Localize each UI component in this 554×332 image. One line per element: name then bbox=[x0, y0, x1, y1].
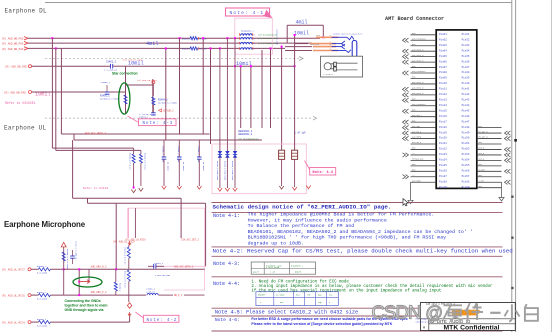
svg-text:C3404_2 C-X5R: C3404_2 C-X5R bbox=[162, 146, 165, 163]
left stub row 14 net AUD_MICBIAS1 bbox=[411, 105, 437, 107]
resistor R3410_2 vertical bbox=[128, 245, 130, 247]
junction NB_DL/v294 bbox=[294, 65, 296, 67]
svg-text:AUD_RG_A: AUD_RG_A bbox=[412, 130, 422, 133]
vertical wire v1 bbox=[51, 38, 53, 148]
left stub row 26 net GND bbox=[411, 170, 437, 172]
vertical wire x89 bbox=[88, 269, 90, 281]
svg-text:Pin10: Pin10 bbox=[439, 81, 447, 85]
svg-text:BEADA502_2: BEADA502_2 bbox=[241, 29, 254, 32]
capacitor C3402_2 bbox=[110, 64, 112, 69]
wire L-route 2 bbox=[56, 149, 141, 151]
svg-text:J3_VUB_2: J3_VUB_2 bbox=[163, 110, 175, 113]
svg-text:Connecting the GNDs: Connecting the GNDs bbox=[65, 299, 101, 303]
svg-text:1_DET: 1_DET bbox=[479, 179, 486, 182]
svg-text:AUD_GND_N_2: AUD_GND_N_2 bbox=[91, 266, 107, 269]
svg-text:Pin39: Pin39 bbox=[462, 76, 470, 80]
svg-text:NC-0402: NC-0402 bbox=[182, 162, 185, 171]
vertical wire x203 bbox=[202, 38, 204, 134]
wire mic row2 bbox=[50, 294, 146, 296]
ground symbol left of connector bbox=[410, 182, 412, 200]
svg-text:Pin45: Pin45 bbox=[462, 108, 470, 112]
wire DL row1 bbox=[28, 37, 190, 39]
svg-text:Pin07: Pin07 bbox=[439, 65, 447, 69]
notes separator top bbox=[407, 202, 503, 204]
svg-text:L-BB-1M: L-BB-1M bbox=[146, 290, 155, 293]
svg-text:The higher impedance @100Mhz B: The higher impedance @100Mhz Bead is bet… bbox=[248, 212, 435, 218]
note box Note 4-2 callout bbox=[135, 312, 143, 318]
wire mic row 3 left bbox=[31, 321, 38, 323]
svg-text:GND/5: GND/5 bbox=[295, 270, 302, 273]
svg-text:Pin42: Pin42 bbox=[462, 92, 470, 96]
bead B3401 in ESD box bbox=[279, 150, 285, 159]
svg-text:R3403_2 R-0-NC: R3403_2 R-0-NC bbox=[144, 153, 147, 171]
svg-text:Pin13: Pin13 bbox=[439, 98, 447, 102]
wire mic rail upper bbox=[73, 197, 182, 199]
svg-text:Pin17: Pin17 bbox=[439, 119, 447, 123]
svg-text:Refer to U3104: Refer to U3104 bbox=[83, 186, 108, 190]
svg-text:Note 4-6:: Note 4-6: bbox=[215, 317, 240, 323]
right stub net AUD_A bbox=[477, 159, 502, 161]
svg-text:R-0-1005: R-0-1005 bbox=[37, 272, 48, 275]
svg-text:Pin40: Pin40 bbox=[462, 81, 470, 85]
svg-text:Pin41: Pin41 bbox=[462, 87, 470, 91]
right stub net ACCDET bbox=[477, 170, 502, 172]
svg-text:Note: 4-3: Note: 4-3 bbox=[143, 122, 174, 126]
red arrow inside ellipse bbox=[79, 280, 91, 284]
svg-text:BLM18BD102SN1 ' ' for high: BLM18BD102SN1 ' ' for high THD performan… bbox=[248, 235, 447, 241]
capacitor C3405_2 column bbox=[178, 140, 180, 157]
star cross link bbox=[126, 84, 153, 86]
svg-text:4mil: 4mil bbox=[146, 41, 158, 47]
left stub row 11 net AUD_HSMc_R bbox=[411, 88, 437, 90]
svg-text:CSDN: CSDN bbox=[372, 301, 421, 322]
svg-text:2. Analog input impedance is: 2. Analog input impedance is as below, p… bbox=[251, 284, 493, 289]
svg-text:However, it may influence the: However, it may influence the audio perf… bbox=[248, 217, 387, 223]
wire NB_DL row bbox=[32, 65, 111, 67]
right stub net 1_DET bbox=[477, 181, 502, 183]
svg-text:Pin21: Pin21 bbox=[439, 141, 447, 145]
svg-text:(R) AUD_NB_PAD: (R) AUD_NB_PAD bbox=[2, 37, 24, 41]
watermark char yi (one) bbox=[490, 312, 500, 314]
vertical wire x165 bbox=[165, 48, 167, 140]
svg-text:Note: 4-1: Note: 4-1 bbox=[230, 10, 265, 16]
resistor R3406_2 bbox=[38, 268, 50, 271]
wire to jack row4 bbox=[285, 50, 312, 52]
junction jack top bbox=[322, 36, 324, 38]
svg-text:HIFANA_AUD: HIFANA_AUD bbox=[412, 158, 424, 161]
green ellipse gnd highlight bbox=[73, 277, 102, 287]
title block internal line 1 bbox=[421, 318, 516, 320]
left stub row 28 net AUD_RGB1 bbox=[411, 181, 437, 183]
svg-text:AUD_GND_P_2: AUD_GND_P_2 bbox=[91, 291, 107, 294]
wire mic row1 bbox=[50, 268, 204, 270]
svg-text:Pin37: Pin37 bbox=[462, 65, 470, 69]
right stub net GND bbox=[477, 165, 502, 167]
right stub net FM_ANT_B bbox=[477, 138, 502, 140]
wire to jack row2 bbox=[295, 43, 308, 45]
title block orange highlight bbox=[452, 310, 482, 316]
svg-text:Note: 4-6: Note: 4-6 bbox=[313, 171, 334, 175]
left stub row 1 net GND bbox=[411, 34, 437, 36]
right stub net GND bbox=[477, 176, 502, 178]
resistor R3411_2 vertical bbox=[127, 270, 130, 281]
note box Note 4-6 callout bbox=[305, 161, 310, 170]
svg-text:C-ACT-AF-YBB: C-ACT-AF-YBB bbox=[155, 274, 171, 277]
wire UL drop left bbox=[73, 134, 75, 140]
svg-text:Earphone UL: Earphone UL bbox=[4, 125, 47, 132]
svg-text:AUD_HSMC_R: AUD_HSMC_R bbox=[412, 59, 424, 62]
note box Note 4-3 callout bbox=[128, 116, 139, 122]
right stub net AUD_B bbox=[477, 154, 502, 156]
svg-text:Earphone Microphone: Earphone Microphone bbox=[4, 220, 86, 229]
svg-text:---: --- bbox=[412, 152, 415, 155]
left stub row 4 net AUD_HSMC_R bbox=[411, 50, 437, 52]
wire mic rail lower bbox=[88, 202, 206, 204]
svg-text:GND through signle via: GND through signle via bbox=[65, 308, 104, 312]
svg-text:R3411_2 R-0-NC: R3411_2 R-0-NC bbox=[124, 271, 127, 289]
left stub row 3 net GND bbox=[411, 45, 437, 47]
junction x270 bbox=[270, 47, 272, 49]
jack mechanical drawing box bbox=[321, 56, 363, 77]
svg-text:AUD_A: AUD_A bbox=[479, 158, 486, 161]
svg-text:2: 2 bbox=[254, 35, 255, 37]
svg-text:AUD_B: AUD_B bbox=[479, 147, 486, 150]
svg-text:NC/0402/-Y/1005: NC/0402/-Y/1005 bbox=[100, 98, 119, 101]
vertical wire x228 bbox=[226, 37, 228, 39]
svg-text:C719_4 C-X5R-NC: C719_4 C-X5R-NC bbox=[75, 241, 78, 260]
resistor R3401_1 bbox=[124, 95, 127, 104]
svg-text:Pin16: Pin16 bbox=[439, 114, 447, 118]
watermark char jian (piece) bbox=[465, 303, 483, 320]
svg-text:Pin43: Pin43 bbox=[462, 98, 470, 102]
wire UL bus upper bbox=[61, 133, 209, 135]
svg-text:Pin46: Pin46 bbox=[462, 114, 470, 118]
junction row3/v2 bbox=[55, 47, 57, 49]
svg-text:C3406_2 C-X5R: C3406_2 C-X5R bbox=[197, 146, 200, 163]
svg-text:4mil: 4mil bbox=[296, 20, 308, 26]
left stub row 12 net AUD_HSMc_R bbox=[411, 94, 437, 96]
input port arrow 1 bbox=[24, 37, 28, 40]
vertical wire x210 bbox=[210, 48, 212, 144]
capacitor C3404_2 column bbox=[163, 140, 165, 157]
star node vertical b bbox=[152, 79, 154, 113]
note box Note 4-1 bbox=[226, 8, 270, 16]
svg-text:Pin56: Pin56 bbox=[462, 169, 470, 173]
svg-text:1 nF 1pF: 1 nF 1pF bbox=[294, 132, 306, 135]
svg-text:R-0-1005: R-0-1005 bbox=[37, 298, 48, 301]
frame outer right faint line bbox=[551, 0, 553, 332]
capacitor C3410_2 bbox=[152, 105, 154, 113]
note 4-3 table bbox=[251, 262, 315, 274]
svg-text:NC-0402: NC-0402 bbox=[202, 162, 205, 171]
svg-text:Pin11: Pin11 bbox=[439, 87, 447, 91]
svg-text:(R) AUD_NB_PAD: (R) AUD_NB_PAD bbox=[2, 47, 24, 51]
mouse cursor bbox=[403, 199, 408, 207]
notes separator bottom bbox=[212, 330, 503, 332]
left stub row 20 net AUD_RGFN bbox=[411, 138, 437, 140]
svg-text:Pin59: Pin59 bbox=[462, 185, 470, 189]
svg-text:Pin57: Pin57 bbox=[462, 174, 470, 178]
left stub row 27 net --- bbox=[411, 176, 437, 178]
red arrow down mic bottom bbox=[128, 312, 131, 316]
svg-text:2: 2 bbox=[254, 43, 255, 45]
junction row1/v1 bbox=[51, 37, 53, 39]
resistor R3405_2 bbox=[62, 252, 65, 261]
wire rail2 drop bbox=[205, 203, 207, 266]
svg-text:AUD_MICBIAS1: AUD_MICBIAS1 bbox=[412, 70, 426, 73]
svg-text:Pin49: Pin49 bbox=[462, 130, 470, 134]
svg-text:BEAD6101, BEAD6102, BEADA502: BEAD6101, BEAD6102, BEADA502_2 and BEADA… bbox=[248, 229, 473, 235]
bead BEADA501_2 in callout bbox=[240, 32, 252, 36]
test point diamond bbox=[127, 303, 131, 309]
svg-text:Pin01: Pin01 bbox=[439, 32, 447, 36]
svg-text:Pin14: Pin14 bbox=[439, 103, 447, 107]
right stub net AUD_B bbox=[477, 148, 502, 150]
svg-text:CKMD4B JACK-5-PJ-ANAL-H-LP: CKMD4B JACK-5-PJ-ANAL-H-LP bbox=[333, 33, 363, 36]
svg-text:C3410_2: C3410_2 bbox=[139, 116, 149, 119]
svg-text:Pin12: Pin12 bbox=[439, 92, 447, 96]
title block internal line 2 bbox=[429, 323, 516, 325]
svg-text:DETECTOR: DETECTOR bbox=[310, 43, 320, 46]
svg-text:Pin35: Pin35 bbox=[462, 54, 470, 58]
svg-text:Pin26: Pin26 bbox=[439, 169, 447, 173]
svg-text:To Balance the performance of: To Balance the performance of FM and bbox=[248, 223, 355, 229]
wire to jack row3 bbox=[285, 46, 312, 48]
svg-text:AUD_HSMc_R: AUD_HSMc_R bbox=[412, 92, 424, 95]
junction VMIC/mic1 bbox=[63, 268, 65, 270]
svg-text:Pin51: Pin51 bbox=[462, 141, 470, 145]
svg-text:R3408_2: R3408_2 bbox=[37, 318, 47, 321]
resistor R3403_2 column bbox=[140, 150, 142, 154]
capacitor C3406_2 column bbox=[198, 140, 200, 157]
svg-text:(R) AUD_UL_MIC7: (R) AUD_UL_MIC7 bbox=[2, 268, 26, 272]
watermark char ying (hard) bbox=[443, 305, 463, 320]
left stub row 22 net GND bbox=[411, 148, 437, 150]
svg-text:2: 2 bbox=[254, 49, 255, 51]
left stub row 21 net AUD_RG_A bbox=[411, 143, 437, 145]
svg-text:AUD_HSM_L: AUD_HSM_L bbox=[412, 114, 423, 117]
vertical wire v2b bbox=[60, 48, 62, 134]
wire L-route 1 bbox=[52, 147, 133, 149]
svg-text:FM_ANT_B: FM_ANT_B bbox=[479, 136, 489, 139]
svg-text:Pin54: Pin54 bbox=[462, 158, 470, 162]
svg-text:BRIGHT: BRIGHT bbox=[258, 294, 266, 297]
svg-text:Pin20: Pin20 bbox=[439, 136, 447, 140]
diode D3403 ESD bbox=[234, 38, 236, 151]
svg-text:D3402_2 ESD-0402: D3402_2 ESD-0402 bbox=[223, 161, 226, 181]
svg-text:AUD_HSMc_R: AUD_HSMc_R bbox=[412, 81, 424, 84]
notes separator 6 bbox=[212, 315, 503, 317]
svg-text:Pin32: Pin32 bbox=[462, 37, 470, 41]
svg-text:1. Need do FM configuration fo: 1. Need do FM configuration for ECC mode bbox=[251, 280, 349, 285]
wire mic row 1 left bbox=[31, 268, 38, 270]
resistor R3409_2 between mic rows bbox=[115, 269, 117, 282]
svg-text:AUD_RG_A: AUD_RG_A bbox=[412, 141, 422, 144]
svg-text:C3401_2: C3401_2 bbox=[101, 81, 111, 84]
left stub row 13 net GND bbox=[411, 99, 437, 101]
plug circle bbox=[324, 63, 331, 70]
svg-text:Pin29: Pin29 bbox=[439, 185, 447, 189]
ESD stub red arrow bbox=[306, 186, 310, 189]
left stub row 25 net GND bbox=[411, 165, 437, 167]
svg-text:2: 2 bbox=[254, 38, 255, 40]
left stub row 16 net AUD_HSM_L bbox=[411, 116, 437, 118]
svg-text:Note 4-5: Please select CA5: Note 4-5: Please select CA510_2 with 043… bbox=[215, 309, 358, 315]
svg-text:1 2G: 1 2G bbox=[270, 270, 276, 273]
plug shaft lines bbox=[336, 62, 357, 64]
svg-text:AUD_HSMC_R: AUD_HSMC_R bbox=[412, 48, 424, 51]
green ellipse highlight (star) bbox=[119, 83, 130, 114]
capacitor C719_4 vertical bbox=[72, 250, 74, 256]
svg-text:Note 4-2: Reserved Cap for CS/: Note 4-2: Reserved Cap for CS/RS test, p… bbox=[213, 247, 513, 254]
svg-text:Pin03: Pin03 bbox=[439, 43, 447, 47]
vertical wire v2 bbox=[55, 48, 57, 150]
svg-text:(R) AUD_NB_PAD: (R) AUD_NB_PAD bbox=[5, 65, 27, 69]
vertical wire x281 bbox=[281, 47, 283, 150]
wire rail1 drop bbox=[180, 198, 182, 238]
svg-text:(R) AUD_UL_MIC4: (R) AUD_UL_MIC4 bbox=[2, 320, 26, 324]
svg-text:BEADA502_2: BEADA502_2 bbox=[238, 133, 252, 136]
left stub row 24 net HIFANA_AUD bbox=[411, 159, 437, 161]
svg-text:AUD_MICBIAS1: AUD_MICBIAS1 bbox=[412, 103, 426, 106]
svg-text:@: @ bbox=[425, 303, 443, 323]
svg-text:together and then to main: together and then to main bbox=[65, 304, 108, 308]
svg-text:4 Mult bend: 4 Mult bend bbox=[266, 266, 280, 269]
svg-text:10mil: 10mil bbox=[294, 30, 309, 36]
svg-text:R3410_2 R-0-NC: R3410_2 R-0-NC bbox=[124, 248, 127, 266]
svg-text:Pin28: Pin28 bbox=[439, 179, 447, 183]
svg-text:Pin22: Pin22 bbox=[439, 147, 447, 151]
mic area pink box outline bbox=[128, 208, 204, 290]
wire to jack row1 orange bbox=[316, 36, 338, 38]
svg-text:AUD_ACC_DET8_2: AUD_ACC_DET8_2 bbox=[174, 265, 194, 268]
wire UL bus lower bbox=[74, 139, 262, 141]
svg-text:UL MODE: UL MODE bbox=[276, 294, 285, 297]
svg-text:Schematic design notice of "62: Schematic design notice of "62_PERI_AUDI… bbox=[213, 204, 392, 211]
svg-text:Pin27: Pin27 bbox=[439, 174, 447, 178]
callout frame beads group bbox=[235, 18, 272, 54]
junction x165 bbox=[165, 47, 167, 49]
jack sleeve bar bbox=[352, 41, 357, 58]
svg-text:Pin44: Pin44 bbox=[462, 103, 470, 107]
left stub row 6 net AUD_HSMC_R bbox=[411, 61, 437, 63]
svg-text:R3405_2 R-0-1005: R3405_2 R-0-1005 bbox=[66, 249, 69, 270]
svg-text:AUD_ACC_DET8_2: AUD_ACC_DET8_2 bbox=[85, 132, 107, 135]
notes separator 3 bbox=[212, 255, 503, 257]
note 4-4 table bbox=[256, 292, 338, 306]
svg-text:Pin25: Pin25 bbox=[439, 163, 447, 167]
vertical wire x262 bbox=[261, 50, 263, 128]
diode D3402 ESD bbox=[226, 38, 228, 151]
notes separator under header bbox=[212, 211, 503, 213]
left stub row 23 net --- bbox=[411, 154, 437, 156]
resistor R3407_2 bbox=[38, 294, 50, 297]
input port arrow 3 bbox=[24, 47, 28, 50]
bead BEADA503_2 in callout bbox=[240, 41, 252, 45]
svg-text:Earphone J: Earphone J bbox=[291, 264, 303, 267]
left stub row 2 net AUD_MICBIAS0 bbox=[411, 39, 437, 41]
svg-text:Note 4-3:: Note 4-3: bbox=[213, 261, 240, 267]
svg-text:Pin53: Pin53 bbox=[462, 152, 470, 156]
svg-text:(R) AUD_NB_PAD: (R) AUD_NB_PAD bbox=[4, 91, 26, 95]
svg-text:Refer to U3102E1: Refer to U3102E1 bbox=[5, 101, 36, 105]
svg-text:D3401_2 ESD-0402: D3401_2 ESD-0402 bbox=[216, 161, 219, 181]
title block outline bbox=[421, 303, 516, 331]
vertical wire x179 bbox=[179, 38, 181, 134]
vertical wire x250 bbox=[250, 66, 252, 128]
connector J2701 AMT board connector body bbox=[436, 30, 477, 189]
vertical wire x270 bbox=[270, 48, 272, 128]
notes separator 5 bbox=[212, 307, 503, 309]
junction x203 bbox=[202, 37, 204, 39]
svg-text:AUD_RGB1: AUD_RGB1 bbox=[412, 179, 422, 182]
svg-text:NC-0402: NC-0402 bbox=[167, 162, 170, 171]
svg-text:Pin50: Pin50 bbox=[462, 136, 470, 140]
right stub net GND bbox=[477, 127, 502, 129]
bead BEADA504_2 in callout bbox=[240, 46, 252, 50]
svg-text:FM_ANT_R: FM_ANT_R bbox=[479, 130, 489, 133]
svg-text:Pin34: Pin34 bbox=[462, 48, 470, 52]
svg-text:Pin05: Pin05 bbox=[439, 54, 447, 58]
notes separator 4 bbox=[212, 276, 503, 278]
svg-text:Pin52: Pin52 bbox=[462, 147, 470, 151]
resistor R3404_1 bbox=[152, 97, 155, 105]
svg-text:R-0-1005: R-0-1005 bbox=[37, 325, 48, 328]
svg-text:Pin06: Pin06 bbox=[439, 59, 447, 63]
svg-text:Note 4-4:: Note 4-4: bbox=[213, 281, 240, 287]
vertical wire x294 bbox=[294, 35, 296, 130]
watermark char bai (white) bbox=[525, 304, 538, 321]
frame top border line bbox=[45, 2, 512, 4]
svg-text:L-R-G-M: L-R-G-M bbox=[324, 73, 334, 76]
svg-text:AMT Board Connector: AMT Board Connector bbox=[385, 16, 444, 22]
svg-text:ACC/T: ACC/T bbox=[253, 270, 260, 273]
svg-text:Pin33: Pin33 bbox=[462, 43, 470, 47]
input port arrow 2 bbox=[24, 41, 28, 44]
diode D3401 ESD bbox=[219, 48, 221, 151]
svg-text:Pin31: Pin31 bbox=[462, 32, 470, 36]
svg-text:Pin58: Pin58 bbox=[462, 179, 470, 183]
svg-text:NC/0402/-Y/1005: NC/0402/-Y/1005 bbox=[158, 102, 177, 105]
svg-text:Pin47: Pin47 bbox=[462, 119, 470, 123]
vertical wire x116 bbox=[115, 203, 117, 269]
frame tick markers bbox=[514, 139, 517, 142]
title block left column line bbox=[428, 319, 430, 331]
mic input port 3 bbox=[28, 321, 31, 324]
svg-text:Pin38: Pin38 bbox=[462, 70, 470, 74]
svg-text:Pin55: Pin55 bbox=[462, 163, 470, 167]
left stub row 10 net AUD_HSMc_R bbox=[411, 83, 437, 85]
svg-text:Pin15: Pin15 bbox=[439, 108, 447, 112]
svg-text:Please refer to the latest ver: Please refer to the latest version of [S… bbox=[251, 322, 392, 326]
watermark char xiao (small) bbox=[504, 304, 519, 321]
vertical wire x135 bbox=[134, 208, 136, 238]
dashed divider upper bbox=[45, 58, 299, 60]
left stub row 7 net GND bbox=[411, 67, 437, 69]
bead BEADA502_2 in callout bbox=[240, 36, 252, 40]
svg-text:(R) AUD_NB_PAD: (R) AUD_NB_PAD bbox=[2, 42, 24, 46]
svg-text:Note: 4-2: Note: 4-2 bbox=[147, 319, 178, 323]
svg-text:Note 4-1:: Note 4-1: bbox=[213, 213, 240, 219]
callout tail 4-1 bbox=[262, 15, 269, 17]
svg-text:Pin24: Pin24 bbox=[439, 158, 447, 162]
svg-text:Pin09: Pin09 bbox=[439, 76, 447, 80]
svg-text:(R) AUD_UL_MIC6: (R) AUD_UL_MIC6 bbox=[2, 293, 26, 297]
svg-text:Pin48: Pin48 bbox=[462, 125, 470, 129]
vertical wire x240 bbox=[240, 66, 242, 128]
svg-text:AUD_MICBIAS0: AUD_MICBIAS0 bbox=[412, 37, 426, 40]
svg-text:Star connection: Star connection bbox=[112, 72, 138, 76]
